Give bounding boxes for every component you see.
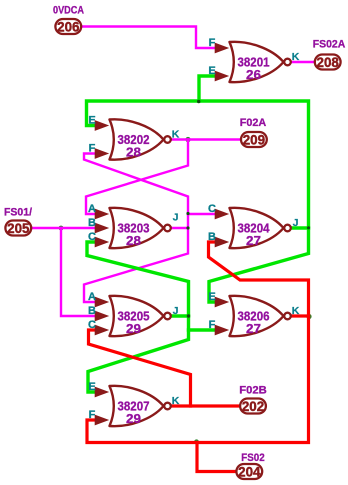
- svg-text:A: A: [88, 203, 96, 215]
- svg-text:F: F: [209, 37, 216, 49]
- svg-text:C: C: [88, 319, 96, 331]
- svg-text:K: K: [172, 395, 180, 407]
- svg-text:FS01/: FS01/: [4, 206, 32, 218]
- svg-text:26: 26: [246, 67, 261, 82]
- svg-text:29: 29: [126, 411, 141, 426]
- svg-text:B: B: [88, 305, 96, 317]
- svg-text:FS02A: FS02A: [313, 38, 346, 50]
- svg-text:209: 209: [243, 132, 265, 147]
- svg-text:K: K: [292, 51, 300, 63]
- svg-text:J: J: [293, 217, 299, 229]
- svg-text:29: 29: [126, 321, 141, 336]
- svg-text:F: F: [209, 319, 216, 331]
- svg-text:F02A: F02A: [240, 117, 267, 129]
- svg-text:A: A: [88, 291, 96, 303]
- svg-text:K: K: [172, 128, 180, 140]
- svg-text:205: 205: [7, 221, 30, 236]
- svg-text:E: E: [88, 115, 95, 127]
- svg-text:K: K: [292, 305, 300, 317]
- svg-text:E: E: [208, 65, 215, 77]
- svg-text:28: 28: [126, 233, 141, 248]
- svg-text:C: C: [88, 231, 96, 243]
- svg-text:206: 206: [57, 19, 79, 34]
- svg-text:0VDCA: 0VDCA: [53, 4, 84, 16]
- svg-text:F: F: [89, 143, 96, 155]
- svg-text:E: E: [88, 381, 95, 393]
- svg-text:202: 202: [242, 399, 264, 414]
- svg-text:F02B: F02B: [239, 384, 267, 396]
- svg-text:28: 28: [126, 145, 141, 160]
- svg-text:208: 208: [317, 55, 340, 70]
- svg-text:C: C: [208, 203, 216, 215]
- svg-text:27: 27: [246, 233, 261, 248]
- svg-text:E: E: [208, 291, 215, 303]
- svg-text:27: 27: [246, 321, 261, 336]
- svg-text:J: J: [173, 305, 179, 317]
- svg-text:B: B: [88, 217, 96, 229]
- svg-text:FS02: FS02: [241, 452, 265, 464]
- svg-text:204: 204: [238, 464, 261, 479]
- svg-text:F: F: [89, 409, 96, 421]
- svg-text:J: J: [173, 212, 179, 224]
- svg-text:B: B: [208, 231, 216, 243]
